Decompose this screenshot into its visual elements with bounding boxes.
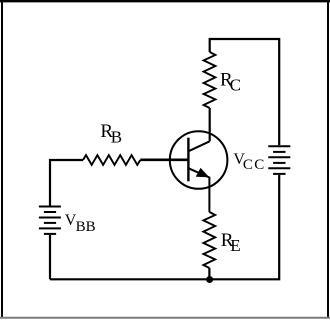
battery VCC [268, 146, 290, 174]
svg-text:B: B [111, 127, 122, 146]
transistor Q1 emitter arrowhead [196, 168, 209, 177]
frame border bottom [0, 317, 330, 319]
wire: left rail bottom (VBB bottom to corner) [49, 235, 51, 279]
transistor Q1 emitter lead [189, 168, 210, 212]
resistor RC zigzag [204, 52, 216, 108]
resistor RE zigzag [203, 212, 215, 268]
transistor Q1 base bar [187, 138, 189, 182]
wire: VBB top to RB corner [50, 160, 83, 206]
wire: VCC bottom to bottom-right corner and bottom rail [50, 175, 279, 279]
wire: top rail from RC top to VCC top corner [210, 39, 280, 145]
frame border top [0, 0, 330, 2]
frame border left [1, 0, 3, 318]
wire: RE bottom to ground rail [208, 268, 210, 279]
resistor RB zigzag [83, 155, 140, 165]
transistor Q1 circle [170, 131, 228, 189]
wire: RC bottom to transistor collector [209, 108, 211, 141]
wire: RB to base [140, 159, 188, 162]
svg-text:E: E [230, 236, 240, 255]
svg-text:B: B [76, 219, 86, 235]
frame border right [327, 0, 329, 318]
svg-text:C: C [254, 157, 264, 173]
junction node dot [206, 276, 213, 283]
svg-text:C: C [243, 157, 253, 173]
svg-text:C: C [230, 76, 241, 95]
svg-text:B: B [86, 219, 96, 235]
battery VBB [39, 207, 61, 234]
transistor Q1 collector lead [189, 141, 210, 151]
